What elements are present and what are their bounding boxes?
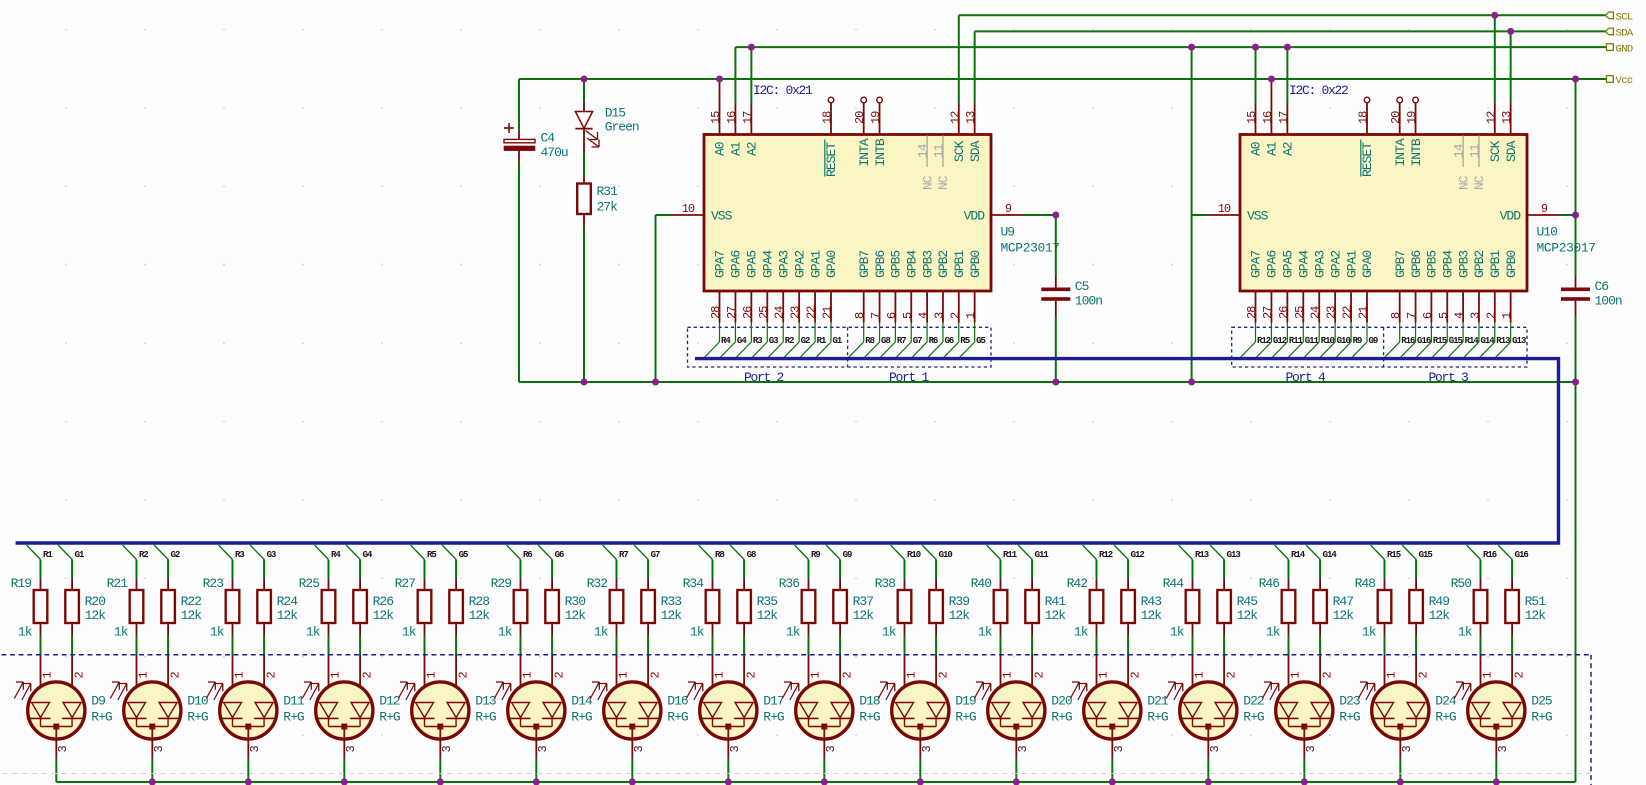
svg-text:GPA4: GPA4 — [760, 250, 775, 278]
svg-text:3: 3 — [1400, 746, 1414, 753]
svg-text:14: 14 — [1452, 143, 1467, 158]
svg-text:10: 10 — [682, 202, 695, 216]
svg-text:13: 13 — [1500, 111, 1514, 124]
svg-text:1k: 1k — [594, 625, 609, 640]
svg-text:R22: R22 — [181, 594, 202, 609]
wire bus tap R15 — [1371, 545, 1401, 579]
svg-text:MCP23017: MCP23017 — [1001, 241, 1060, 256]
svg-text:R15: R15 — [1387, 550, 1401, 560]
svg-text:470u: 470u — [541, 145, 568, 160]
svg-text:3: 3 — [1468, 312, 1482, 319]
svg-text:1: 1 — [233, 672, 247, 679]
svg-text:R5: R5 — [427, 550, 436, 560]
wire bus tap G15 — [1402, 545, 1432, 579]
svg-text:GPB0: GPB0 — [1504, 251, 1519, 278]
wire U9 VDD pin 9 — [991, 202, 1056, 216]
resistor R22 12k — [161, 579, 202, 656]
svg-text:27: 27 — [725, 306, 739, 319]
resistor R51 12k — [1505, 579, 1546, 656]
svg-text:20: 20 — [1389, 111, 1403, 124]
svg-text:18: 18 — [821, 111, 835, 124]
wire bus tap R8 — [699, 545, 725, 579]
svg-text:D18: D18 — [859, 694, 880, 709]
svg-text:7: 7 — [1405, 312, 1419, 319]
svg-text:12k: 12k — [1141, 608, 1163, 623]
svg-text:1: 1 — [41, 672, 55, 679]
svg-text:1k: 1k — [306, 625, 321, 640]
svg-text:GPA0: GPA0 — [824, 251, 839, 278]
svg-text:GPA5: GPA5 — [1281, 251, 1296, 278]
svg-text:G12: G12 — [1131, 550, 1145, 560]
svg-text:1k: 1k — [498, 625, 513, 640]
svg-text:R51: R51 — [1525, 594, 1547, 609]
svg-text:100n: 100n — [1595, 294, 1622, 309]
svg-text:23: 23 — [1325, 306, 1339, 319]
wire U9 A2 to GND — [750, 47, 752, 134]
svg-text:5: 5 — [1437, 312, 1451, 319]
svg-text:1: 1 — [905, 672, 919, 679]
svg-text:G6: G6 — [555, 550, 564, 560]
wire U10 A2 to GND — [1286, 47, 1288, 134]
svg-text:R29: R29 — [491, 576, 512, 591]
LED D25 R+G — [1454, 655, 1552, 782]
svg-text:1: 1 — [1001, 672, 1015, 679]
resistor R29 1k — [491, 576, 528, 655]
resistor R41 12k — [1025, 579, 1066, 656]
svg-text:1: 1 — [1289, 672, 1303, 679]
svg-text:Port 2: Port 2 — [744, 370, 784, 385]
svg-text:R50: R50 — [1451, 576, 1472, 591]
svg-text:R19: R19 — [11, 576, 32, 591]
IC U9 MCP23017 I2C 0x21 — [704, 83, 1060, 323]
resistor R36 1k — [779, 576, 816, 655]
svg-text:6: 6 — [1421, 312, 1435, 319]
svg-text:I2C: 0x21: I2C: 0x21 — [753, 83, 813, 98]
svg-text:27: 27 — [1261, 306, 1275, 319]
svg-text:3: 3 — [632, 746, 646, 753]
svg-text:3: 3 — [1208, 746, 1222, 753]
svg-text:12k: 12k — [85, 608, 107, 623]
svg-text:GPA7: GPA7 — [1249, 251, 1264, 278]
svg-text:5: 5 — [901, 312, 915, 319]
svg-text:17: 17 — [1277, 111, 1291, 124]
svg-text:D16: D16 — [667, 694, 688, 709]
wire bus tap G11 — [1018, 545, 1049, 579]
svg-text:D9: D9 — [91, 694, 105, 709]
svg-text:R20: R20 — [85, 594, 106, 609]
svg-text:GPA7: GPA7 — [713, 251, 728, 278]
svg-text:22: 22 — [1341, 306, 1355, 319]
resistor R40 1k — [971, 576, 1008, 655]
svg-text:GPA1: GPA1 — [1344, 250, 1359, 278]
svg-text:23: 23 — [789, 306, 803, 319]
svg-text:R3: R3 — [235, 550, 244, 560]
resistor R49 12k — [1409, 579, 1450, 656]
wire bus tap G13 — [1210, 545, 1240, 579]
svg-text:2: 2 — [552, 672, 566, 679]
svg-text:GPA6: GPA6 — [729, 251, 744, 278]
svg-text:GPB4: GPB4 — [904, 250, 919, 278]
svg-text:15: 15 — [709, 111, 723, 124]
svg-text:INTB: INTB — [873, 138, 888, 166]
svg-text:G2: G2 — [171, 550, 180, 560]
wire GND rail — [519, 381, 1576, 383]
svg-text:GPB5: GPB5 — [1425, 251, 1440, 278]
resistor R24 12k — [257, 579, 298, 656]
svg-text:19: 19 — [1405, 111, 1419, 124]
svg-text:R+G: R+G — [1147, 710, 1168, 725]
svg-text:D25: D25 — [1531, 694, 1552, 709]
wire bus tap G7 — [634, 545, 660, 579]
svg-text:1k: 1k — [402, 625, 417, 640]
svg-text:12k: 12k — [373, 608, 395, 623]
LED D12 R+G — [302, 655, 400, 782]
wire bus tap G4 — [346, 545, 373, 579]
svg-text:D14: D14 — [571, 694, 593, 709]
svg-text:GND: GND — [1616, 43, 1633, 55]
svg-text:GPA3: GPA3 — [776, 251, 791, 278]
svg-text:R8: R8 — [865, 336, 874, 346]
wire bus tap G16 — [1498, 545, 1528, 579]
svg-text:R36: R36 — [779, 576, 800, 591]
net flag Vcc — [1607, 75, 1633, 87]
svg-text:R26: R26 — [373, 594, 394, 609]
svg-text:2: 2 — [1320, 672, 1334, 679]
svg-text:VDD: VDD — [1500, 209, 1522, 224]
svg-text:GPB5: GPB5 — [889, 251, 904, 278]
svg-text:D17: D17 — [763, 694, 784, 709]
LED D24 R+G — [1358, 655, 1457, 782]
svg-text:GPA5: GPA5 — [745, 251, 760, 278]
svg-text:R3: R3 — [753, 336, 762, 346]
svg-text:G5: G5 — [459, 550, 468, 560]
svg-text:28: 28 — [709, 306, 723, 319]
svg-text:G3: G3 — [769, 336, 778, 346]
resistor R32 1k — [587, 576, 624, 655]
LED D10 R+G — [110, 655, 208, 782]
LED D16 R+G — [590, 655, 688, 782]
svg-text:9: 9 — [1541, 202, 1548, 216]
svg-text:25: 25 — [757, 306, 771, 319]
svg-text:R7: R7 — [897, 336, 906, 346]
svg-text:3: 3 — [248, 746, 262, 753]
svg-text:G5: G5 — [976, 336, 985, 346]
svg-text:G11: G11 — [1035, 550, 1050, 560]
wire U10 VSS pin 10 — [1192, 47, 1240, 382]
svg-text:R25: R25 — [299, 576, 320, 591]
LED D19 R+G — [878, 655, 976, 782]
svg-text:G15: G15 — [1419, 550, 1433, 560]
svg-text:3: 3 — [1304, 746, 1318, 753]
svg-text:6: 6 — [885, 312, 899, 319]
wire bus tap R16 — [1467, 545, 1497, 579]
svg-text:12k: 12k — [661, 608, 683, 623]
wire bus tap R5 — [411, 545, 437, 579]
svg-text:U10: U10 — [1537, 225, 1558, 240]
wire net Vcc — [519, 78, 1606, 80]
svg-text:3: 3 — [824, 746, 838, 753]
svg-text:SDA: SDA — [968, 140, 983, 162]
wire bus tap R10 — [891, 545, 921, 579]
LED D21 R+G — [1070, 655, 1169, 782]
wire bus tap R2 — [123, 545, 149, 579]
svg-text:1k: 1k — [978, 625, 993, 640]
svg-text:24: 24 — [773, 306, 787, 319]
svg-text:12: 12 — [948, 111, 962, 124]
svg-text:A2: A2 — [1281, 142, 1296, 156]
svg-text:1: 1 — [964, 312, 978, 319]
LED D11 R+G — [206, 655, 305, 782]
svg-text:2: 2 — [72, 672, 86, 679]
svg-text:3: 3 — [440, 746, 454, 753]
svg-text:2: 2 — [1484, 312, 1498, 319]
svg-text:G16: G16 — [1515, 550, 1529, 560]
svg-text:14: 14 — [916, 143, 931, 158]
svg-text:A2: A2 — [745, 142, 760, 156]
svg-text:2: 2 — [264, 672, 278, 679]
svg-text:12k: 12k — [277, 608, 299, 623]
resistor R37 12k — [833, 579, 874, 656]
resistor R28 12k — [449, 579, 490, 656]
svg-text:R24: R24 — [277, 594, 299, 609]
resistor R34 1k — [683, 576, 720, 655]
svg-text:12k: 12k — [949, 608, 971, 623]
resistor R26 12k — [353, 579, 394, 656]
svg-text:3: 3 — [1016, 746, 1030, 753]
svg-text:NC: NC — [1472, 175, 1487, 190]
wire LED common cathode rail — [56, 781, 1575, 783]
resistor R21 1k — [107, 576, 144, 655]
svg-text:R+G: R+G — [91, 710, 112, 725]
svg-text:R+G: R+G — [187, 710, 208, 725]
wire bus tap R13 — [1179, 545, 1209, 579]
svg-text:1: 1 — [329, 672, 343, 679]
svg-text:NC: NC — [1456, 175, 1471, 190]
svg-text:2: 2 — [168, 672, 182, 679]
svg-text:G9: G9 — [843, 550, 852, 560]
svg-text:Port 1: Port 1 — [889, 370, 930, 385]
svg-text:3: 3 — [152, 746, 166, 753]
svg-text:I2C: 0x22: I2C: 0x22 — [1289, 83, 1348, 98]
svg-text:12k: 12k — [181, 608, 203, 623]
svg-text:GPA2: GPA2 — [792, 251, 807, 278]
svg-text:R21: R21 — [107, 576, 129, 591]
svg-text:2: 2 — [1032, 672, 1046, 679]
svg-text:GPB6: GPB6 — [873, 251, 888, 278]
svg-text:2: 2 — [360, 672, 374, 679]
wire bus tap G6 — [538, 545, 564, 579]
svg-text:3: 3 — [1496, 746, 1510, 753]
resistor R38 1k — [875, 576, 912, 655]
svg-text:1: 1 — [1193, 672, 1207, 679]
LED D15 Green — [575, 79, 639, 176]
svg-text:GPA6: GPA6 — [1265, 251, 1280, 278]
svg-text:3: 3 — [56, 746, 70, 753]
svg-text:7: 7 — [869, 312, 883, 319]
svg-text:1k: 1k — [210, 625, 225, 640]
svg-text:R32: R32 — [587, 576, 608, 591]
svg-text:R45: R45 — [1237, 594, 1258, 609]
svg-text:G10: G10 — [939, 550, 953, 560]
svg-text:Port 3: Port 3 — [1428, 370, 1468, 385]
wire U10 A1 to Vcc — [1270, 79, 1272, 135]
wire bus tap R11 — [987, 545, 1018, 579]
svg-text:GPA1: GPA1 — [808, 250, 823, 278]
svg-text:GPA4: GPA4 — [1296, 250, 1311, 278]
svg-text:D20: D20 — [1051, 694, 1072, 709]
svg-text:1k: 1k — [690, 625, 705, 640]
svg-text:R7: R7 — [619, 550, 628, 560]
svg-text:U9: U9 — [1001, 225, 1015, 240]
svg-text:G8: G8 — [747, 550, 756, 560]
wire bus tap R12 — [1083, 545, 1113, 579]
resistor R31 27k — [577, 176, 618, 382]
wire U10 VDD pin 9 — [1527, 202, 1576, 216]
resistor R42 1k — [1067, 576, 1104, 655]
svg-text:2: 2 — [1128, 672, 1142, 679]
svg-text:R+G: R+G — [571, 710, 592, 725]
svg-text:21: 21 — [821, 306, 835, 319]
svg-text:R47: R47 — [1333, 594, 1354, 609]
svg-text:100n: 100n — [1075, 294, 1102, 309]
LED board dashed outline — [2, 655, 1592, 785]
svg-text:D24: D24 — [1435, 694, 1457, 709]
port connector Port 4 / Port 3 of U10 — [1232, 323, 1527, 386]
svg-text:12k: 12k — [1525, 608, 1547, 623]
svg-text:1: 1 — [617, 672, 631, 679]
svg-text:R2: R2 — [139, 550, 148, 560]
svg-text:R+G: R+G — [1531, 710, 1552, 725]
svg-text:C4: C4 — [541, 130, 556, 145]
svg-text:8: 8 — [1389, 312, 1403, 319]
svg-text:MCP23017: MCP23017 — [1537, 241, 1596, 256]
svg-text:4: 4 — [917, 312, 931, 319]
svg-text:R9: R9 — [811, 550, 820, 560]
svg-text:D19: D19 — [955, 694, 976, 709]
capacitor C4 470u — [504, 79, 568, 382]
svg-text:GPB2: GPB2 — [936, 251, 951, 278]
svg-text:2: 2 — [1416, 672, 1430, 679]
svg-text:GPB1: GPB1 — [952, 250, 967, 278]
svg-text:D21: D21 — [1147, 694, 1169, 709]
svg-text:26: 26 — [741, 306, 755, 319]
svg-text:2: 2 — [1512, 672, 1526, 679]
svg-text:R46: R46 — [1259, 576, 1280, 591]
svg-text:GPB7: GPB7 — [1393, 251, 1408, 278]
wire bus tap G8 — [730, 545, 756, 579]
svg-text:1k: 1k — [882, 625, 897, 640]
svg-text:1: 1 — [1500, 312, 1514, 319]
svg-text:D12: D12 — [379, 694, 400, 709]
svg-text:9: 9 — [1005, 202, 1012, 216]
resistor R35 12k — [737, 579, 778, 656]
resistor R27 1k — [395, 576, 432, 655]
svg-text:A0: A0 — [713, 142, 728, 156]
svg-text:R34: R34 — [683, 576, 705, 591]
resistor R20 12k — [65, 579, 106, 656]
svg-text:G14: G14 — [1323, 550, 1338, 560]
LED D23 R+G — [1262, 655, 1360, 782]
wire bus tap G1 — [58, 545, 85, 579]
svg-text:NC: NC — [920, 175, 935, 190]
svg-text:R+G: R+G — [475, 710, 496, 725]
svg-text:2: 2 — [948, 312, 962, 319]
resistor R43 12k — [1121, 579, 1162, 656]
svg-text:1k: 1k — [1266, 625, 1281, 640]
wire U10 SCK to SCL — [1494, 15, 1496, 134]
svg-text:R2: R2 — [785, 336, 794, 346]
resistor R48 1k — [1355, 576, 1392, 655]
resistor R19 1k — [11, 576, 48, 655]
wire bus tap G2 — [154, 545, 180, 579]
svg-text:D23: D23 — [1339, 694, 1360, 709]
wire bus tap G10 — [922, 545, 952, 579]
svg-text:13: 13 — [964, 111, 978, 124]
svg-text:1k: 1k — [786, 625, 801, 640]
svg-text:1k: 1k — [114, 625, 129, 640]
resistor R44 1k — [1163, 576, 1200, 655]
svg-text:R9: R9 — [1353, 336, 1362, 346]
wire U10 SDA to SDA — [1510, 31, 1512, 134]
svg-text:VDD: VDD — [964, 209, 986, 224]
svg-text:GPB6: GPB6 — [1409, 251, 1424, 278]
svg-text:Port 4: Port 4 — [1285, 370, 1326, 385]
svg-text:R30: R30 — [565, 594, 586, 609]
svg-text:D13: D13 — [475, 694, 496, 709]
svg-text:GPA0: GPA0 — [1360, 251, 1375, 278]
svg-text:R+G: R+G — [1435, 710, 1456, 725]
svg-text:R+G: R+G — [667, 710, 688, 725]
svg-text:GPB3: GPB3 — [1456, 251, 1471, 278]
svg-text:NC: NC — [936, 175, 951, 190]
wire bus tap R14 — [1275, 545, 1306, 579]
svg-text:3: 3 — [1112, 746, 1126, 753]
svg-text:G2: G2 — [801, 336, 810, 346]
svg-text:G7: G7 — [913, 336, 922, 346]
IC U10 MCP23017 I2C 0x22 — [1240, 83, 1596, 323]
svg-text:R+G: R+G — [955, 710, 976, 725]
svg-text:R35: R35 — [757, 594, 778, 609]
LED D9 R+G — [14, 655, 112, 782]
svg-text:18: 18 — [1357, 111, 1371, 124]
svg-text:GPA2: GPA2 — [1328, 251, 1343, 278]
wire bus tap G5 — [442, 545, 468, 579]
net flag SDA — [1606, 28, 1634, 40]
svg-text:12k: 12k — [565, 608, 587, 623]
svg-text:R43: R43 — [1141, 594, 1162, 609]
resistor R25 1k — [299, 576, 336, 655]
wire bus tap G12 — [1114, 545, 1144, 579]
svg-text:19: 19 — [869, 111, 883, 124]
resistor R23 1k — [203, 576, 240, 655]
svg-text:RESET: RESET — [1360, 142, 1375, 177]
wire bus tap G3 — [250, 545, 276, 579]
LED D13 R+G — [398, 655, 496, 782]
svg-text:2: 2 — [936, 672, 950, 679]
svg-text:VSS: VSS — [1247, 209, 1269, 224]
resistor R50 1k — [1451, 576, 1488, 655]
svg-text:R+G: R+G — [763, 710, 784, 725]
svg-text:3: 3 — [536, 746, 550, 753]
svg-text:12k: 12k — [469, 608, 491, 623]
svg-text:1: 1 — [809, 672, 823, 679]
resistor R45 12k — [1217, 579, 1258, 656]
svg-text:R33: R33 — [661, 594, 682, 609]
wire U9 SCK to SCL — [958, 15, 960, 134]
svg-text:1k: 1k — [18, 625, 33, 640]
bus net — [16, 359, 1559, 543]
svg-text:D11: D11 — [283, 694, 305, 709]
